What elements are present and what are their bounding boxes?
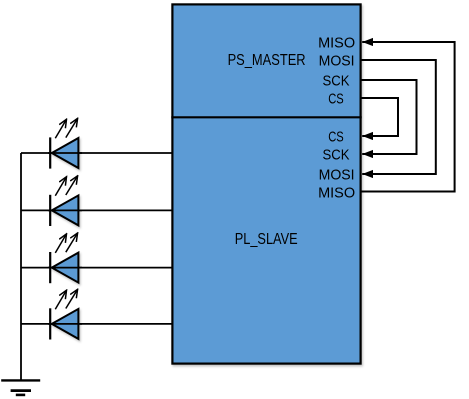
svg-text:CS: CS	[328, 91, 344, 107]
svg-text:PL_SLAVE: PL_SLAVE	[235, 231, 298, 248]
svg-text:MOSI: MOSI	[319, 53, 355, 69]
LED D1	[48, 118, 82, 168]
LED D4	[48, 289, 82, 339]
svg-text:MISO: MISO	[318, 185, 355, 201]
LED D3	[48, 233, 82, 283]
wire LED row 1	[21, 152, 172, 154]
wire MISO loop: slave MISO to master MISO with arrow	[361, 42, 455, 192]
svg-text:SCK: SCK	[323, 73, 350, 89]
wire MOSI loop: master MOSI to slave MOSI with arrow	[361, 60, 436, 174]
wire LED row 4	[21, 323, 172, 325]
wire LED row 2	[21, 209, 172, 211]
svg-text:SCK: SCK	[323, 147, 350, 163]
wire LED row 3	[21, 267, 172, 269]
ground	[1, 380, 40, 395]
svg-text:MISO: MISO	[318, 35, 355, 51]
wire SCK loop: master SCK to slave SCK with arrow	[361, 80, 417, 154]
divider line between PS_MASTER and PL_SLAVE sections	[171, 116, 361, 118]
svg-text:PS_MASTER: PS_MASTER	[228, 52, 306, 69]
wire CS loop: master CS to slave CS with arrow	[361, 98, 398, 136]
wire ground bus (left vertical)	[20, 153, 22, 381]
svg-text:CS: CS	[328, 129, 344, 145]
LED D2	[48, 176, 82, 226]
svg-text:MOSI: MOSI	[319, 167, 355, 183]
block U1 PS_MASTER/PL_SLAVE body	[172, 4, 360, 363]
